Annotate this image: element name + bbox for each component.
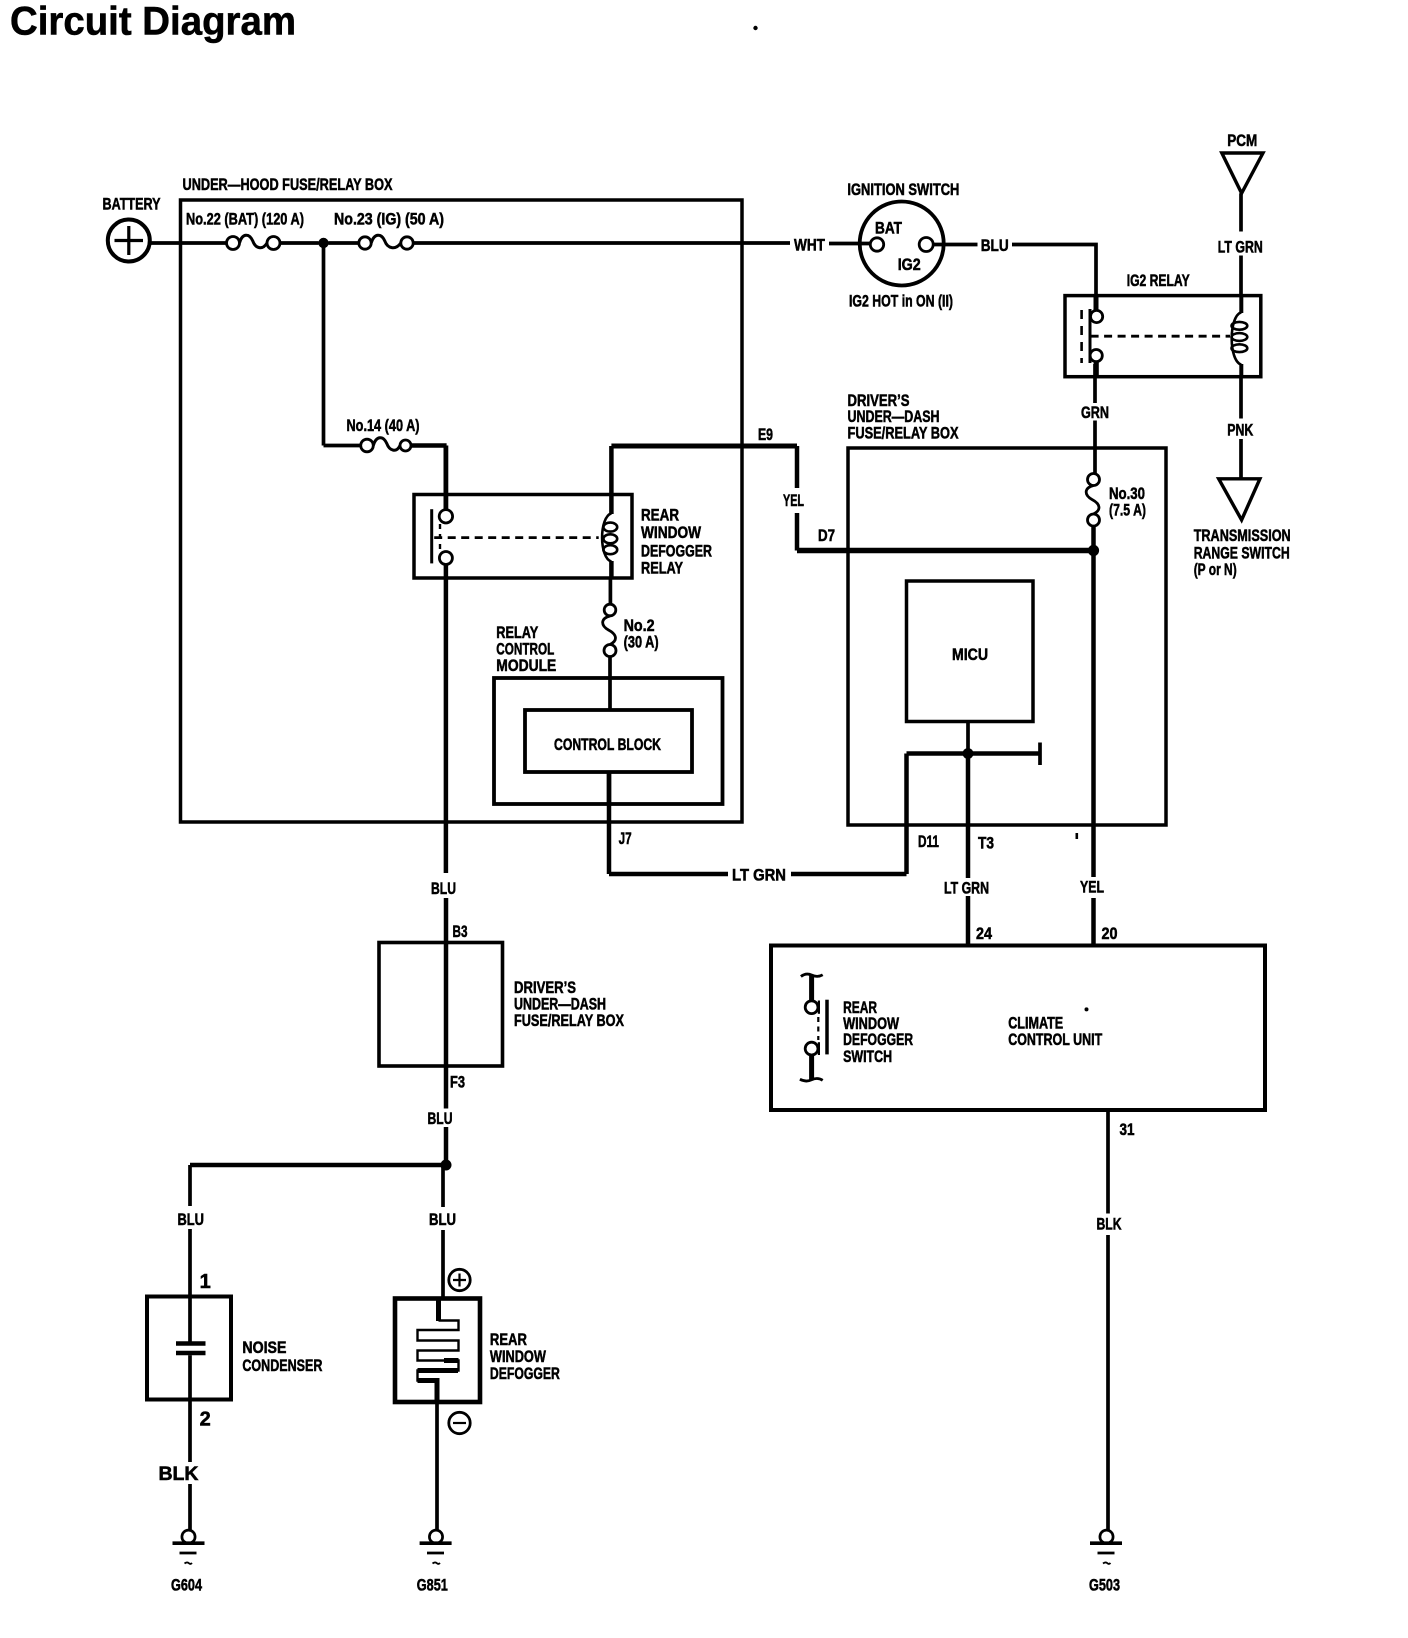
svg-text:CONTROL BLOCK: CONTROL BLOCK <box>554 735 662 754</box>
svg-text:IG2: IG2 <box>898 255 921 274</box>
svg-text:T3: T3 <box>978 834 994 853</box>
svg-text:CONTROL UNIT: CONTROL UNIT <box>1008 1030 1102 1049</box>
svg-text:BLU: BLU <box>431 879 456 898</box>
svg-text:SWITCH: SWITCH <box>843 1047 892 1066</box>
svg-text:BATTERY: BATTERY <box>103 195 161 214</box>
svg-text:GRN: GRN <box>1081 403 1109 422</box>
svg-text:NOISE: NOISE <box>242 1338 286 1357</box>
svg-text:No.22 (BAT) (120 A): No.22 (BAT) (120 A) <box>186 210 304 229</box>
svg-text:G503: G503 <box>1089 1576 1120 1595</box>
svg-text:(7.5 A): (7.5 A) <box>1109 501 1146 520</box>
svg-text:J7: J7 <box>619 829 632 848</box>
svg-text:FUSE/RELAY BOX: FUSE/RELAY BOX <box>848 424 959 443</box>
svg-text:WHT: WHT <box>794 236 825 255</box>
svg-text:2: 2 <box>200 1409 211 1431</box>
svg-text:BLK: BLK <box>159 1464 199 1485</box>
svg-text:IG2 RELAY: IG2 RELAY <box>1127 271 1190 290</box>
svg-text:BLU: BLU <box>429 1210 456 1229</box>
svg-text:REAR: REAR <box>641 506 679 525</box>
svg-text:B3: B3 <box>453 922 468 941</box>
svg-text:G604: G604 <box>171 1576 202 1595</box>
svg-text:(P or N): (P or N) <box>1194 560 1237 579</box>
svg-text:BLK: BLK <box>1097 1215 1123 1234</box>
svg-text:IGNITION SWITCH: IGNITION SWITCH <box>847 180 959 199</box>
svg-text:LT GRN: LT GRN <box>732 866 786 885</box>
svg-text:1: 1 <box>200 1271 211 1293</box>
svg-text:CONDENSER: CONDENSER <box>242 1356 322 1375</box>
svg-text:No.23 (IG) (50 A): No.23 (IG) (50 A) <box>334 210 444 229</box>
svg-text:24: 24 <box>976 924 992 943</box>
svg-text:TRANSMISSION: TRANSMISSION <box>1194 526 1291 545</box>
svg-text:D11: D11 <box>918 832 939 851</box>
svg-text:31: 31 <box>1120 1120 1135 1139</box>
svg-text:Circuit Diagram: Circuit Diagram <box>10 0 296 44</box>
svg-text:FUSE/RELAY BOX: FUSE/RELAY BOX <box>514 1011 624 1030</box>
svg-text:LT GRN: LT GRN <box>944 879 989 898</box>
svg-text:BLU: BLU <box>178 1210 205 1229</box>
svg-text:PNK: PNK <box>1227 421 1254 440</box>
svg-text:D7: D7 <box>818 526 835 545</box>
svg-text:(30 A): (30 A) <box>624 633 659 652</box>
svg-text:BLU: BLU <box>428 1109 453 1128</box>
svg-text:YEL: YEL <box>1080 878 1104 897</box>
svg-text:BLU: BLU <box>981 236 1009 255</box>
svg-text:UNDER—HOOD FUSE/RELAY BOX: UNDER—HOOD FUSE/RELAY BOX <box>183 175 393 194</box>
svg-text:F3: F3 <box>450 1073 465 1092</box>
svg-text:MICU: MICU <box>952 645 988 664</box>
svg-text:DEFOGGER: DEFOGGER <box>490 1364 560 1383</box>
svg-text:No.14 (40 A): No.14 (40 A) <box>347 416 420 435</box>
svg-text:LT GRN: LT GRN <box>1218 238 1263 257</box>
svg-text:PCM: PCM <box>1227 131 1257 150</box>
svg-text:RELAY: RELAY <box>641 558 683 577</box>
svg-text:G851: G851 <box>417 1576 448 1595</box>
svg-text:20: 20 <box>1102 924 1118 943</box>
svg-text:IG2 HOT in ON (II): IG2 HOT in ON (II) <box>849 292 953 311</box>
svg-text:BAT: BAT <box>875 219 902 238</box>
svg-text:YEL: YEL <box>783 491 804 510</box>
svg-text:MODULE: MODULE <box>496 656 556 675</box>
svg-text:E9: E9 <box>758 425 773 444</box>
svg-text:WINDOW: WINDOW <box>641 523 702 542</box>
